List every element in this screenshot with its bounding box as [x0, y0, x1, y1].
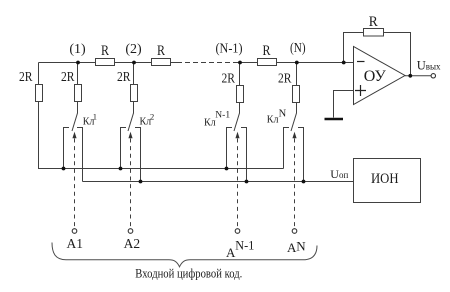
- svg-text:(2): (2): [125, 42, 142, 57]
- svg-text:Uоп: Uоп: [330, 167, 348, 181]
- svg-text:R: R: [263, 43, 271, 59]
- svg-text:N-1: N-1: [235, 238, 254, 253]
- svg-text:Кл: Кл: [204, 117, 216, 128]
- svg-text:A2: A2: [124, 236, 141, 251]
- svg-text:2R: 2R: [117, 70, 131, 85]
- svg-text:2R: 2R: [61, 70, 75, 85]
- svg-text:2R: 2R: [19, 70, 33, 85]
- svg-text:N-1: N-1: [215, 110, 230, 120]
- svg-text:(N-1): (N-1): [216, 42, 243, 57]
- svg-text:2: 2: [150, 111, 154, 121]
- svg-text:(1): (1): [69, 42, 86, 57]
- svg-text:Кл: Кл: [267, 115, 279, 126]
- svg-text:2R: 2R: [278, 72, 292, 87]
- svg-text:A1: A1: [67, 236, 84, 251]
- svg-text:Uвых: Uвых: [417, 59, 441, 73]
- svg-text:R: R: [157, 43, 165, 59]
- svg-text:N: N: [296, 239, 306, 254]
- svg-text:R: R: [101, 43, 109, 59]
- svg-text:N: N: [279, 109, 287, 120]
- svg-text:R: R: [369, 14, 378, 30]
- svg-text:1: 1: [93, 111, 97, 121]
- svg-text:(N): (N): [290, 41, 306, 56]
- svg-text:Входной цифровой код.: Входной цифровой код.: [135, 266, 242, 281]
- svg-text:2R: 2R: [222, 72, 236, 87]
- svg-text:ОУ: ОУ: [364, 68, 387, 85]
- svg-text:ИОН: ИОН: [371, 171, 399, 187]
